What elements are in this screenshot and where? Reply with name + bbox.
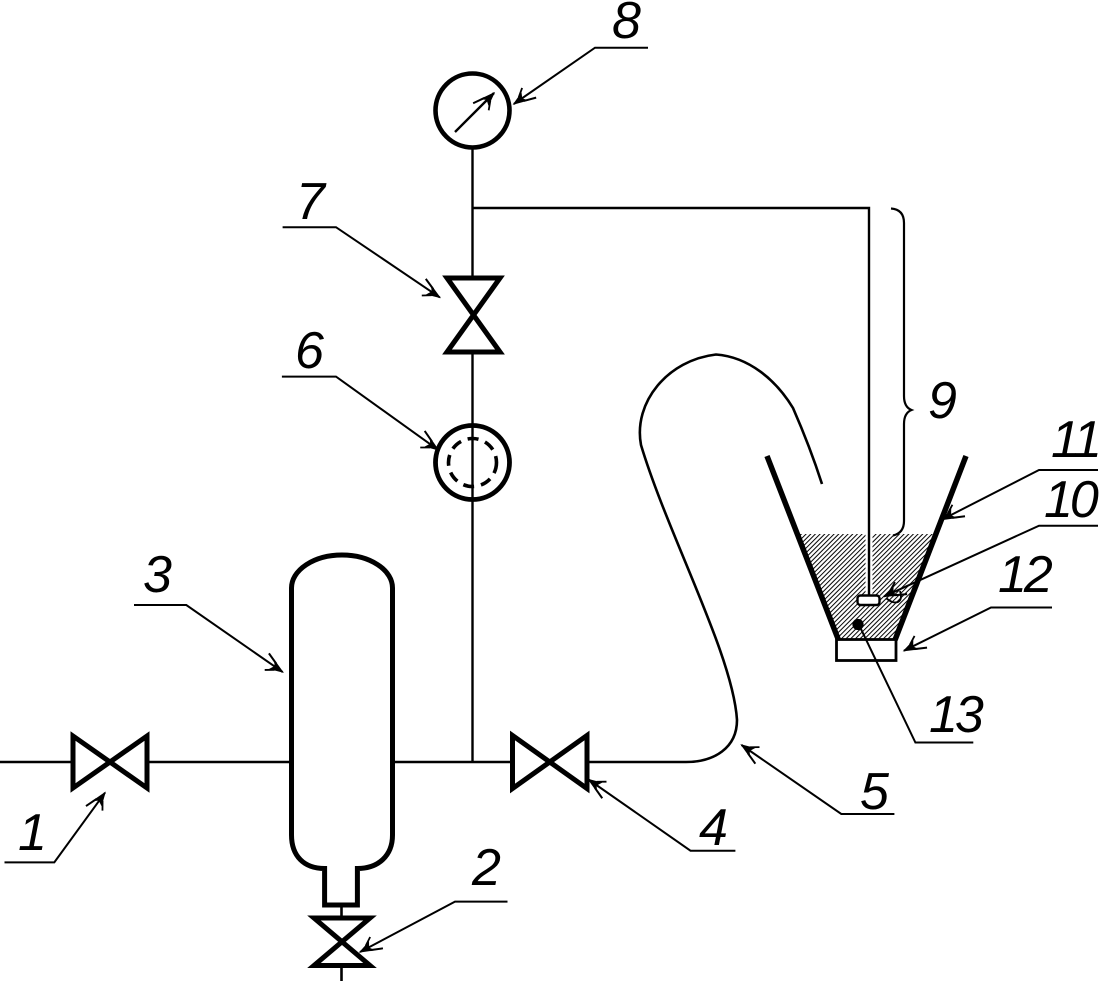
svg-text:9: 9 <box>928 372 957 430</box>
svg-text:10: 10 <box>1044 471 1099 529</box>
svg-text:13: 13 <box>929 686 984 744</box>
svg-text:7: 7 <box>296 173 327 231</box>
svg-text:1: 1 <box>18 804 47 862</box>
svg-text:12: 12 <box>998 546 1053 604</box>
svg-text:4: 4 <box>699 799 728 857</box>
svg-text:11: 11 <box>1051 411 1099 469</box>
svg-text:6: 6 <box>295 322 324 380</box>
svg-text:8: 8 <box>612 0 641 50</box>
svg-text:5: 5 <box>860 763 890 821</box>
svg-text:2: 2 <box>471 839 501 897</box>
svg-text:3: 3 <box>143 546 172 604</box>
